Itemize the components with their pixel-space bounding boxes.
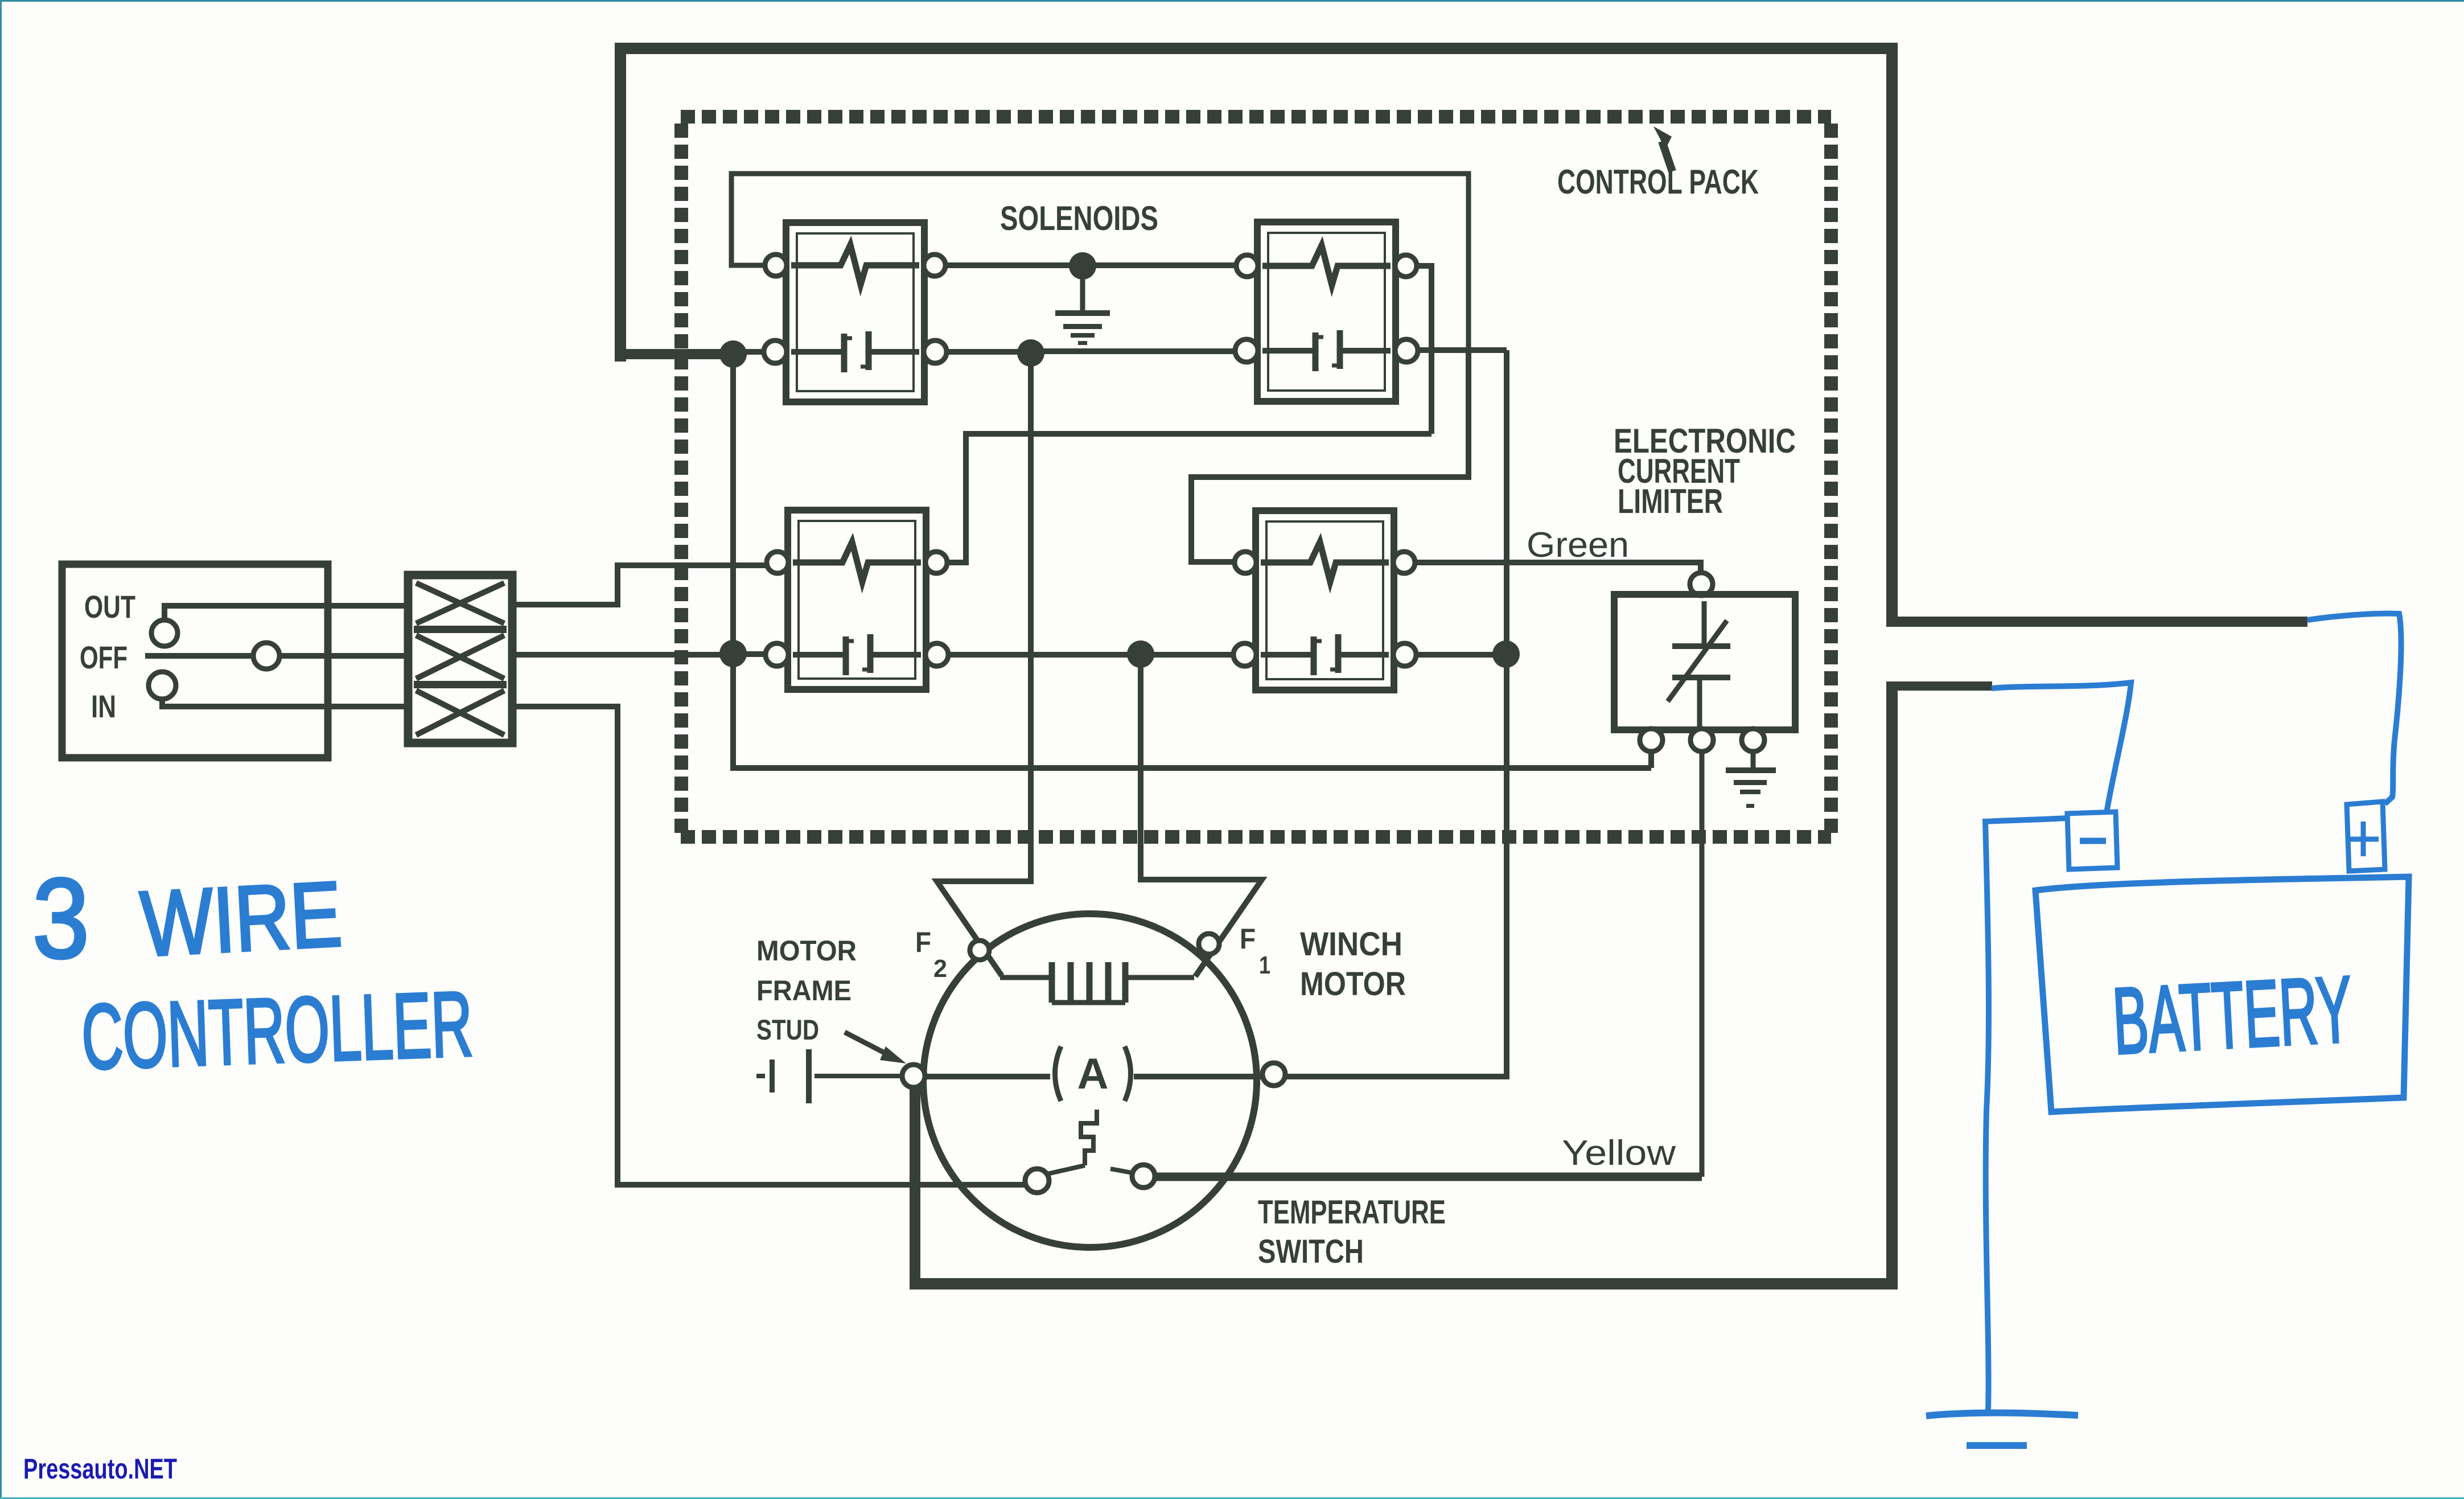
solenoid K3 (766, 510, 948, 689)
control pack dashed border bottom (681, 830, 1831, 844)
wire: outer frame top edge (615, 43, 1898, 54)
wire: K3 coil right feed up and over (947, 434, 1431, 562)
wire: K4 contact to node E (1416, 652, 1506, 658)
ground: battery ground symbol (1926, 1413, 2078, 1416)
svg-text:F: F (915, 926, 931, 958)
terminal F1 (1199, 934, 1219, 954)
wire: controller OUT lead (164, 606, 408, 620)
wire: IN line down and to temperature switch (512, 707, 1026, 1185)
wire: controller IN lead (162, 699, 408, 707)
svg-text:OUT: OUT (84, 589, 135, 625)
svg-text:OFF: OFF (80, 639, 127, 675)
control pack dashed border right (1824, 124, 1838, 837)
wire: K3 contact to node D (949, 652, 1141, 658)
svg-text:TEMPERATURE: TEMPERATURE (1258, 1194, 1446, 1231)
node B (1017, 339, 1044, 367)
wire: outer frame left edge (615, 43, 626, 362)
wire: K1 contact to node B (943, 349, 1031, 355)
wire: node A vertical down to lower bus and across to limiter leg (733, 354, 1651, 768)
svg-text:IN: IN (91, 688, 116, 724)
wire: outer frame bottom edge (910, 1278, 1898, 1289)
temperature switch (1025, 1110, 1155, 1193)
wire: node A to K1 contact (733, 349, 765, 355)
wire: blue positive battery lead (2307, 614, 2401, 804)
solenoid K2 (1235, 222, 1418, 401)
controller IN contact circle (149, 672, 176, 699)
wire: motor frame stud ground leg (910, 1083, 920, 1288)
wire: solenoid K2/K4 output vertical to armature (1285, 350, 1507, 1077)
control pack dashed border top (681, 110, 1831, 124)
current limiter U1 (1614, 573, 1795, 751)
arrow from STUD label to stud (845, 1032, 891, 1056)
wire: OFF line to node C (512, 652, 733, 658)
svg-text:WINCH: WINCH (1300, 926, 1402, 963)
connector block (3 cells) (408, 575, 512, 743)
svg-text:MOTOR: MOTOR (1300, 966, 1406, 1003)
motor armature right terminal (1262, 1063, 1285, 1086)
svg-text:1: 1 (1259, 951, 1270, 979)
svg-text:2: 2 (933, 955, 947, 983)
motor frame stud bar and chassis marks (815, 1074, 902, 1078)
wire: Green wire from K4 coil to current limiter (1414, 562, 1701, 574)
node E (1492, 640, 1520, 668)
svg-text:SOLENOIDS: SOLENOIDS (1000, 199, 1158, 237)
controller pivot contact circle (253, 643, 279, 669)
connector cell X marks (416, 583, 504, 623)
node C (719, 640, 747, 667)
ground: limiter ground (1751, 751, 1756, 769)
wire: thick stub to battery negative (1886, 681, 1992, 691)
motor frame stud terminal (902, 1065, 925, 1087)
wire: thick stub to battery positive (1886, 617, 2307, 627)
battery negative terminal (2067, 812, 2117, 869)
wire: thick feed from left edge to node A (615, 349, 729, 359)
wire: node D vertical down to field lead F1 (1141, 654, 1262, 976)
wire: outer frame right edge lower (1886, 681, 1898, 1288)
winch motor housing circle (923, 914, 1257, 1247)
wire: node D to K4 contact (1141, 652, 1233, 658)
wire: solenoid coil feed loop (731, 174, 1468, 348)
svg-text:SWITCH: SWITCH (1258, 1233, 1364, 1270)
svg-text:Yellow: Yellow (1562, 1134, 1676, 1173)
svg-text:Pressauto.NET: Pressauto.NET (23, 1453, 177, 1485)
svg-text:CONTROL PACK: CONTROL PACK (1557, 163, 1759, 201)
svg-text:STUD: STUD (756, 1014, 819, 1046)
node A (719, 340, 747, 368)
ground: solenoid common ground (1069, 252, 1096, 280)
wire: K1 coil to ground node and K2 coil (944, 262, 1235, 268)
wire: OUT line to solenoid K3 coil (512, 565, 768, 605)
svg-text:F: F (1240, 923, 1256, 955)
svg-text:MOTOR: MOTOR (756, 935, 857, 967)
wire: K2 coil right feed down (1416, 266, 1431, 434)
arrow from CONTROL PACK label to dashed border (1662, 141, 1672, 171)
solenoid K4 (1233, 511, 1416, 690)
svg-text:Green: Green (1527, 525, 1629, 565)
battery positive terminal (2347, 802, 2385, 871)
wire: K2 contact to output corner (1417, 347, 1507, 353)
svg-text:LIMITER: LIMITER (1618, 482, 1723, 520)
wire: outer frame right edge upper (1886, 43, 1898, 623)
terminal F2 (970, 941, 989, 960)
wire: node B vertical down to field lead F2 (937, 354, 1031, 976)
svg-text:3: 3 (32, 855, 89, 982)
node D (1127, 640, 1154, 668)
field coil between F2 and F1 (1000, 975, 1194, 980)
wire: node B to K2 contact (1031, 348, 1235, 354)
wire: contact bus to K4 coil feed (1191, 350, 1468, 562)
svg-text:BATTERY: BATTERY (2111, 956, 2355, 1074)
battery box (2035, 877, 2409, 1112)
3-wire controller box (62, 564, 328, 758)
solenoid K1 (764, 223, 947, 402)
wire: blue ground lead down left side of battery (1985, 818, 2067, 1410)
svg-text:A: A (1077, 1050, 1109, 1098)
wire: blue negative battery lead (1992, 683, 2131, 813)
svg-text:WIRE: WIRE (138, 863, 344, 976)
controller OUT contact circle (151, 620, 178, 646)
wire: armature row (925, 1074, 1262, 1079)
wire: Yellow wire from limiter to temperature switch (1700, 751, 1705, 1177)
wire: controller OFF lead (145, 653, 408, 659)
armature (A) (1055, 1046, 1062, 1101)
control pack dashed border left (674, 124, 688, 837)
svg-text:CONTROLLER: CONTROLLER (80, 972, 474, 1089)
svg-text:FRAME: FRAME (756, 975, 852, 1007)
wire: node C to K3 contact (733, 651, 766, 657)
